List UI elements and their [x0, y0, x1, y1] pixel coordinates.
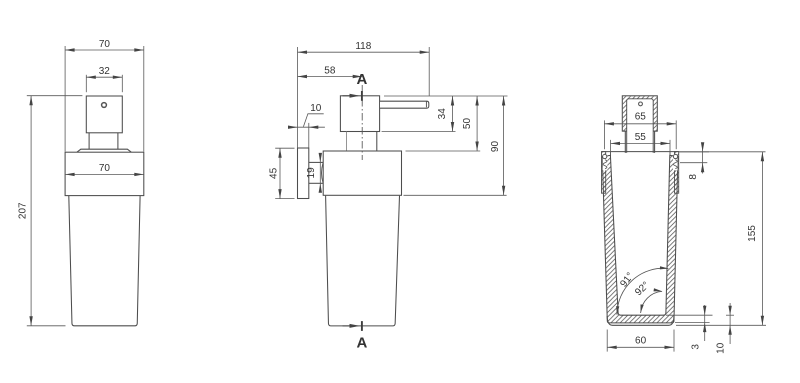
svg-text:50: 50 [462, 118, 473, 130]
section: container bottom outer skin [607, 316, 674, 325]
dimension 70 (overall width, top) [64, 46, 66, 152]
dimension 55 (lip width) [610, 140, 612, 152]
left view: collar [65, 152, 144, 195]
svg-text:207: 207 [18, 202, 29, 219]
section: collar right wall [675, 152, 679, 194]
dimension 50 (head top to collar) [406, 150, 481, 152]
dimension 10 (wall plate thickness) [290, 126, 325, 128]
svg-text:60: 60 [635, 336, 647, 347]
dimension 58 (wall to section plane) [298, 76, 363, 78]
section: container wall (hatched U-section) [602, 155, 678, 323]
side view: pump neck [346, 132, 348, 151]
dimension 10 (bottom total) [726, 314, 734, 316]
svg-text:55: 55 [635, 132, 647, 143]
svg-text:45: 45 [268, 167, 279, 179]
svg-text:58: 58 [324, 65, 336, 76]
side view: body [326, 196, 400, 326]
section: mounting screw right [673, 154, 678, 170]
dimension 90 (head top to collar bottom) [404, 194, 507, 196]
left view: pump head [86, 96, 122, 133]
dimension 155 (container height) [679, 151, 766, 153]
section: mounting screw left [603, 154, 608, 170]
left view: pump button hole [102, 103, 107, 108]
angle 91 degrees arc [617, 268, 668, 314]
section: pump hole [639, 102, 643, 106]
svg-text:A: A [356, 335, 367, 352]
dimension 118 (overall depth) [297, 47, 299, 148]
svg-text:32: 32 [99, 66, 111, 77]
svg-text:70: 70 [99, 39, 111, 50]
side view: mounting tongue [309, 161, 323, 163]
section: pump head cavity [627, 99, 654, 153]
dimension 34 (head height) [384, 95, 508, 97]
svg-text:10: 10 [310, 103, 322, 114]
svg-text:91°: 91° [618, 271, 636, 290]
svg-text:A: A [356, 71, 367, 88]
dimension 60 (bottom width) [606, 330, 608, 352]
dimension 19 (tongue height) [319, 154, 321, 193]
side view: wall plate [298, 148, 309, 199]
section arrow bottom [343, 325, 354, 327]
svg-text:90: 90 [490, 141, 501, 153]
svg-text:70: 70 [99, 163, 111, 174]
svg-text:155: 155 [747, 225, 758, 242]
svg-text:8: 8 [688, 174, 699, 180]
svg-text:3: 3 [691, 344, 702, 350]
dimension 207 (overall height) [27, 95, 83, 97]
svg-text:10: 10 [716, 342, 727, 354]
svg-text:92°: 92° [633, 280, 652, 298]
dimension 65 (head flange width) [603, 120, 605, 149]
svg-text:65: 65 [635, 111, 647, 122]
section: pump head wall hatch [623, 96, 657, 131]
dimension 8 (lip depth) [679, 151, 709, 153]
section arrow top [343, 95, 354, 97]
svg-text:118: 118 [355, 41, 371, 52]
left view: pump flange [77, 149, 131, 152]
section: neck walls [624, 131, 626, 153]
dimension 45 (wall plate height) [275, 147, 294, 149]
section line A-A [361, 85, 363, 160]
left view: pump neck [88, 133, 90, 149]
svg-text:19: 19 [306, 167, 317, 179]
section: collar left wall [602, 152, 606, 194]
dimension 3 (bottom inner) [666, 314, 713, 316]
svg-text:34: 34 [437, 108, 448, 120]
angle 92 degrees arc [641, 291, 663, 313]
left view: body [69, 196, 140, 326]
section: collar top [602, 151, 679, 153]
side view: pump head [340, 96, 379, 132]
section: collar lip edges [610, 152, 612, 156]
side view: collar [323, 151, 401, 195]
section: pump head outer [622, 96, 657, 131]
dimension 32 (head width) [85, 75, 87, 92]
dimension 70 (collar width, inside collar) [65, 173, 144, 175]
side view: spout [380, 101, 429, 108]
